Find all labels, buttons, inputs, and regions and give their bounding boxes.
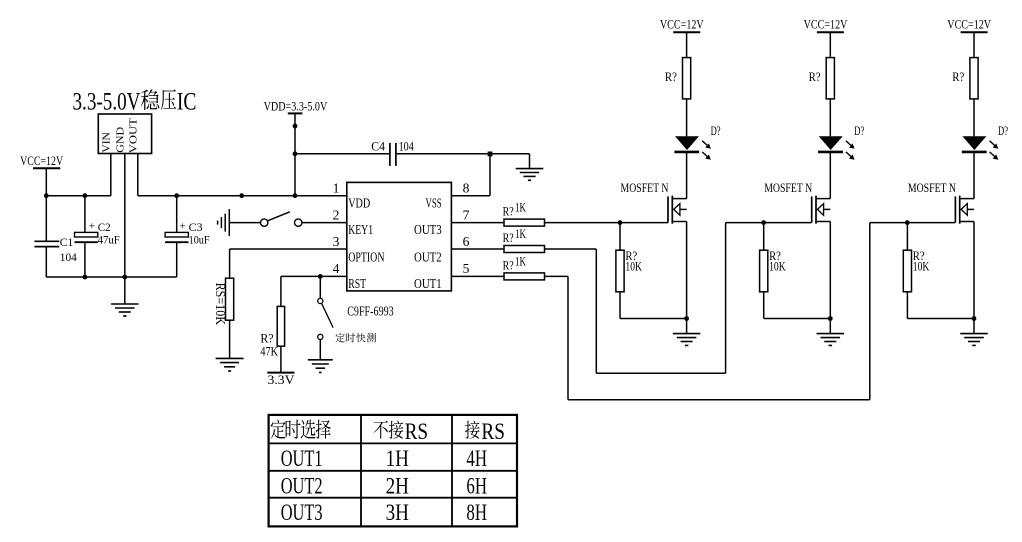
IC label KEY1 bbox=[348, 223, 373, 238]
resistor R? 47K bbox=[277, 306, 284, 346]
svg-text:C3: C3 bbox=[189, 222, 203, 234]
label R? (1K row 3) bbox=[503, 257, 514, 272]
table cell OUT1 bbox=[281, 446, 323, 471]
regulator pin label GND bbox=[115, 127, 127, 153]
svg-text:KEY1: KEY1 bbox=[348, 223, 373, 238]
label R? (1K row 2) bbox=[503, 230, 514, 245]
table header 定时选择 bbox=[270, 420, 330, 439]
svg-text:8H: 8H bbox=[466, 500, 487, 525]
svg-text:2H: 2H bbox=[386, 473, 409, 498]
switch S2 contact A bbox=[318, 298, 323, 303]
node gate 3 junction bbox=[905, 220, 910, 225]
svg-text:RST: RST bbox=[348, 277, 366, 292]
resistor R? 1K (OUT2) bbox=[504, 246, 545, 253]
wire VSS riser bbox=[489, 154, 491, 196]
svg-text:D?: D? bbox=[854, 123, 864, 138]
svg-text:MOSFET N: MOSFET N bbox=[621, 181, 669, 195]
svg-text:4H: 4H bbox=[466, 446, 487, 471]
svg-text:104: 104 bbox=[60, 252, 77, 264]
ground (stage 3) bbox=[960, 319, 988, 346]
resistor R? (stage 3 pull-up) bbox=[952, 58, 978, 99]
label 47K bbox=[260, 344, 278, 359]
pin 7 number bbox=[463, 207, 470, 222]
label R? (47K) bbox=[260, 331, 273, 346]
switch S1 lever bbox=[268, 212, 290, 221]
resistor R? 1K (OUT1) bbox=[504, 273, 545, 280]
svg-text:1K: 1K bbox=[515, 254, 526, 268]
label R? (1K row 1) bbox=[503, 204, 514, 219]
resistor R? 10K (stage 3) bbox=[903, 223, 974, 319]
wire LED to drain (stage 1) bbox=[686, 153, 688, 199]
svg-text:VOUT: VOUT bbox=[128, 118, 140, 153]
svg-text:MOSFET N: MOSFET N bbox=[764, 181, 812, 195]
svg-text:OUT2: OUT2 bbox=[281, 473, 323, 498]
wire pin 8 stub bbox=[451, 195, 490, 197]
wire VIN pin bbox=[110, 154, 112, 196]
ground (S2) bbox=[308, 360, 333, 373]
node source junction (stage 2) bbox=[828, 316, 833, 321]
LED D? (stage 1) bbox=[674, 136, 711, 160]
label R? (stage 2 10K) bbox=[769, 248, 781, 263]
svg-text:VCC=12V: VCC=12V bbox=[660, 18, 704, 32]
wire R to LED (stage 1) bbox=[686, 99, 688, 136]
label 1K (row 1) bbox=[515, 201, 526, 215]
power symbol VDD=3.3-5.0V bbox=[264, 100, 328, 196]
power symbol VCC=12V (left) bbox=[20, 154, 63, 196]
svg-text:47uF: 47uF bbox=[98, 235, 120, 247]
svg-text:6: 6 bbox=[463, 234, 470, 249]
svg-text:1K: 1K bbox=[515, 227, 526, 241]
svg-text:D?: D? bbox=[998, 123, 1008, 138]
svg-text:OUT3: OUT3 bbox=[281, 500, 323, 525]
node GND rail junction bbox=[122, 275, 127, 280]
wire S2 to ground bbox=[319, 340, 321, 360]
title label 3.3-5.0V稳压IC bbox=[73, 89, 197, 116]
svg-text:C2: C2 bbox=[98, 222, 111, 234]
svg-text:VCC=12V: VCC=12V bbox=[20, 154, 63, 168]
pin 3 number bbox=[333, 234, 340, 249]
wire pin 6 stub bbox=[451, 248, 504, 250]
wire VCC rail (left) bbox=[46, 195, 111, 197]
svg-text:VSS: VSS bbox=[426, 196, 442, 211]
pin 8 number bbox=[463, 181, 470, 196]
svg-text:VCC=12V: VCC=12V bbox=[947, 18, 991, 32]
node source junction (stage 3) bbox=[972, 316, 977, 321]
IC U1 C9FF-6993 box bbox=[347, 182, 452, 291]
svg-text:R?: R? bbox=[665, 69, 677, 84]
svg-text:R?: R? bbox=[952, 69, 964, 84]
node VDD/C4 junction bbox=[293, 151, 298, 156]
wire LED to drain (stage 2) bbox=[829, 153, 831, 199]
label 定时快测 bbox=[336, 333, 376, 342]
capacitor C4 (104) bbox=[295, 140, 490, 166]
transistor Q3 MOSFET N bbox=[955, 196, 974, 224]
node source junction (stage 1) bbox=[684, 316, 689, 321]
wire GND pin bbox=[124, 154, 126, 278]
svg-text:10K: 10K bbox=[913, 259, 930, 274]
svg-text:OUT2: OUT2 bbox=[414, 250, 442, 265]
node C2 top junction bbox=[83, 193, 88, 198]
table cell 8H bbox=[466, 500, 487, 525]
power symbol VCC=12V (stage 2) bbox=[804, 18, 848, 58]
LED D? (stage 2) bbox=[818, 136, 855, 160]
svg-text:10K: 10K bbox=[769, 259, 786, 274]
node gate 1 junction bbox=[618, 220, 623, 225]
svg-text:RS=10K: RS=10K bbox=[213, 283, 228, 326]
wire VDD rail bbox=[138, 195, 347, 197]
wire pin 4 bbox=[281, 275, 347, 277]
table frame bbox=[269, 415, 517, 527]
ground (regulator) bbox=[111, 277, 139, 316]
antenna/ground symbol (KEY1) bbox=[218, 209, 230, 236]
resistor RS (10K) bbox=[226, 278, 234, 320]
svg-text:3: 3 bbox=[333, 234, 340, 249]
svg-text:OPTION: OPTION bbox=[348, 250, 384, 265]
label D? (stage 3) bbox=[998, 123, 1008, 138]
power symbol VCC=12V (stage 1) bbox=[660, 18, 704, 58]
label 10K (stage 3) bbox=[913, 259, 930, 274]
wire OUT1 to gate 3 bbox=[545, 223, 956, 400]
svg-text:C9FF-6993: C9FF-6993 bbox=[347, 305, 394, 320]
wire OUT3 to gate 1 bbox=[545, 222, 669, 224]
svg-text:R?: R? bbox=[503, 204, 514, 219]
resistor R? 10K (stage 1) bbox=[616, 223, 687, 319]
table cell OUT2 bbox=[281, 473, 323, 498]
ground (stage 2) bbox=[817, 319, 845, 346]
ground (stage 1) bbox=[673, 319, 701, 346]
svg-text:10K: 10K bbox=[625, 259, 642, 274]
wire C4 to ground bbox=[490, 154, 530, 169]
node rail dot bbox=[239, 193, 244, 198]
wire ground rail (bottom left) bbox=[46, 276, 176, 278]
svg-text:OUT3: OUT3 bbox=[414, 223, 442, 238]
label D? (stage 1) bbox=[711, 123, 721, 138]
svg-text:C4: C4 bbox=[371, 140, 385, 154]
svg-text:OUT1: OUT1 bbox=[281, 446, 323, 471]
label 10K (stage 2) bbox=[769, 259, 786, 274]
ground (RS) bbox=[216, 358, 244, 371]
wire VOUT pin bbox=[137, 154, 139, 196]
svg-text:+: + bbox=[89, 220, 95, 232]
table cell 2H bbox=[386, 473, 409, 498]
label R? (stage 1 10K) bbox=[625, 248, 637, 263]
label MOSFET N (stage 3) bbox=[908, 181, 956, 195]
wire pin 3 to RS bbox=[230, 249, 347, 278]
node VSS/C4 junction (square) bbox=[488, 152, 493, 157]
label D? (stage 2) bbox=[854, 123, 864, 138]
switch S1 contact B bbox=[295, 219, 302, 226]
label RS=10K bbox=[213, 283, 228, 326]
regulator U? box bbox=[98, 114, 151, 154]
svg-text:7: 7 bbox=[463, 207, 470, 222]
capacitor C2 (polarized 47uF) bbox=[75, 196, 120, 277]
label MOSFET N (stage 1) bbox=[621, 181, 669, 195]
svg-text:6H: 6H bbox=[466, 473, 487, 498]
node C2 bottom junction bbox=[83, 275, 88, 280]
wire pin 5 stub bbox=[451, 275, 504, 277]
svg-text:+: + bbox=[180, 220, 186, 232]
wire source down (stage 1) bbox=[686, 222, 688, 319]
IC label OUT3 bbox=[414, 223, 442, 238]
wire R to LED (stage 3) bbox=[973, 99, 975, 136]
wire source down (stage 3) bbox=[973, 222, 975, 319]
svg-text:5: 5 bbox=[463, 261, 470, 276]
IC label OPTION bbox=[348, 250, 384, 265]
capacitor C3 (polarized 10uF) bbox=[165, 196, 210, 277]
node C3/rail junction bbox=[174, 193, 179, 198]
label 10K (stage 1) bbox=[625, 259, 642, 274]
table header 不接RS bbox=[373, 419, 428, 444]
switch S2 lever bbox=[322, 304, 333, 328]
IC part number C9FF-6993 bbox=[347, 305, 394, 320]
node VDD/rail junction bbox=[293, 193, 298, 198]
svg-text:R?: R? bbox=[503, 257, 514, 272]
IC label VDD bbox=[348, 196, 370, 211]
transistor Q1 MOSFET N bbox=[668, 196, 687, 224]
LED D? (stage 3) bbox=[962, 136, 999, 160]
table cell 6H bbox=[466, 473, 487, 498]
IC label RST bbox=[348, 277, 366, 292]
svg-text:D?: D? bbox=[711, 123, 721, 138]
wire KEY1 to pin 2 bbox=[302, 222, 347, 224]
table header 接RS bbox=[465, 419, 505, 444]
svg-text:10uF: 10uF bbox=[189, 235, 210, 247]
table cell 4H bbox=[466, 446, 487, 471]
resistor R? 1K (OUT3) bbox=[504, 219, 545, 226]
IC label VSS bbox=[426, 196, 442, 211]
svg-text:104: 104 bbox=[399, 140, 415, 154]
wire R to LED (stage 2) bbox=[829, 99, 831, 136]
svg-text:RS: RS bbox=[405, 419, 429, 444]
svg-text:3.3-5.0V: 3.3-5.0V bbox=[73, 89, 141, 116]
wire R 47K to 3.3V bbox=[280, 346, 282, 372]
wire RST switch stem bbox=[319, 276, 321, 298]
node VCC/C1 junction bbox=[44, 193, 49, 198]
svg-text:3H: 3H bbox=[386, 500, 409, 525]
ground (C4/VSS) bbox=[516, 169, 544, 181]
resistor R? (stage 1 pull-up) bbox=[665, 58, 691, 99]
svg-text:4: 4 bbox=[333, 261, 340, 276]
svg-text:47K: 47K bbox=[260, 344, 278, 359]
capacitor C1 bbox=[34, 196, 77, 277]
svg-text:GND: GND bbox=[115, 127, 127, 153]
IC label OUT2 bbox=[414, 250, 442, 265]
pin 4 number bbox=[333, 261, 340, 276]
wire LED to drain (stage 3) bbox=[973, 153, 975, 199]
label 1K (row 3) bbox=[515, 254, 526, 268]
resistor R? 10K (stage 2) bbox=[760, 223, 831, 319]
transistor Q2 MOSFET N bbox=[812, 196, 831, 224]
svg-text:1H: 1H bbox=[386, 446, 409, 471]
IC label OUT1 bbox=[414, 277, 442, 292]
label R? (stage 3 10K) bbox=[913, 248, 925, 263]
label MOSFET N (stage 2) bbox=[764, 181, 812, 195]
svg-text:VCC=12V: VCC=12V bbox=[804, 18, 848, 32]
table cell 1H bbox=[386, 446, 409, 471]
svg-text:RS: RS bbox=[481, 419, 505, 444]
pin 1 number bbox=[333, 181, 340, 196]
pin 2 number bbox=[333, 207, 340, 222]
svg-text:3.3V: 3.3V bbox=[268, 372, 296, 387]
svg-text:C1: C1 bbox=[60, 237, 74, 249]
svg-text:8: 8 bbox=[463, 181, 470, 196]
pin 5 number bbox=[463, 261, 470, 276]
table cell 3H bbox=[386, 500, 409, 525]
node VDD stem dot bbox=[293, 124, 298, 129]
svg-text:R?: R? bbox=[809, 69, 821, 84]
power symbol 3.3V bbox=[267, 372, 295, 387]
regulator pin label VIN bbox=[101, 132, 113, 153]
svg-text:1: 1 bbox=[333, 181, 340, 196]
wire RST to R 47K bbox=[280, 276, 282, 306]
svg-text:IC: IC bbox=[177, 89, 197, 116]
switch S2 contact B bbox=[318, 334, 323, 339]
pin 6 number bbox=[463, 234, 470, 249]
power symbol VCC=12V (stage 3) bbox=[947, 18, 991, 58]
resistor R? (stage 2 pull-up) bbox=[809, 58, 835, 99]
wire source down (stage 2) bbox=[829, 222, 831, 319]
wire RS to ground bbox=[229, 320, 231, 358]
node gate 2 junction bbox=[761, 220, 766, 225]
table cell OUT3 bbox=[281, 500, 323, 525]
switch S1 contact A bbox=[261, 219, 268, 226]
svg-text:1K: 1K bbox=[515, 201, 526, 215]
svg-text:VDD: VDD bbox=[348, 196, 370, 211]
svg-text:VIN: VIN bbox=[101, 132, 113, 153]
svg-text:OUT1: OUT1 bbox=[414, 277, 442, 292]
wire OUT2 to gate 2 bbox=[545, 223, 812, 374]
svg-text:2: 2 bbox=[333, 207, 340, 222]
svg-text:R?: R? bbox=[503, 230, 514, 245]
wire KEY1 left bbox=[229, 222, 260, 224]
wire pin 7 stub bbox=[451, 222, 504, 224]
regulator pin label VOUT bbox=[128, 118, 140, 153]
svg-text:VDD=3.3-5.0V: VDD=3.3-5.0V bbox=[264, 100, 328, 114]
svg-text:MOSFET N: MOSFET N bbox=[908, 181, 956, 195]
label 1K (row 2) bbox=[515, 227, 526, 241]
node RST junction bbox=[318, 274, 323, 279]
